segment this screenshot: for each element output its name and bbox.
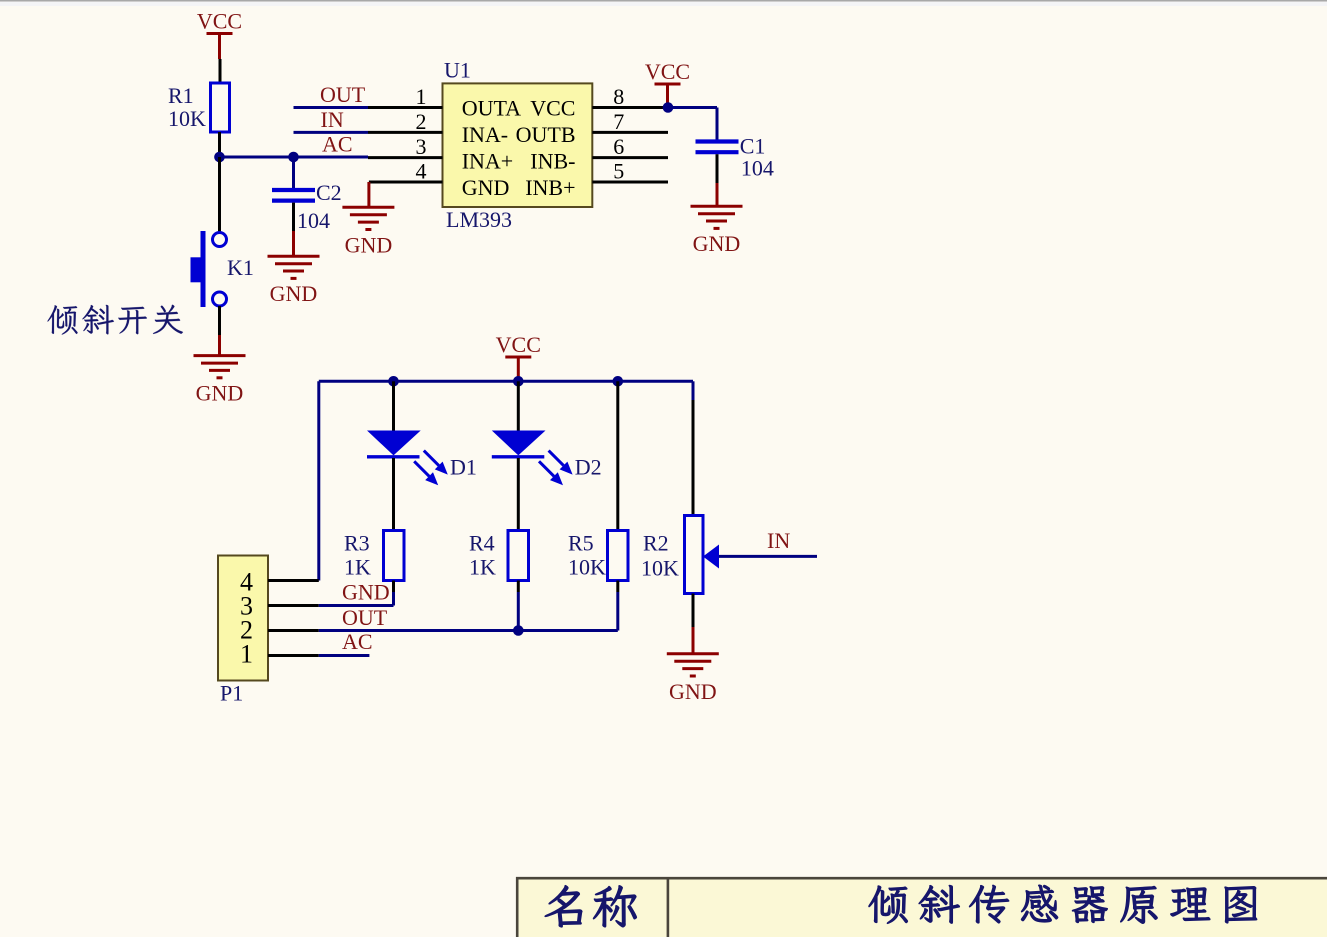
- wire U1 pin4 to ground: [367, 182, 370, 207]
- resistor R4: [469, 531, 529, 581]
- svg-text:LM393: LM393: [446, 207, 512, 232]
- wire R4 to OUT net: [517, 581, 520, 631]
- wire R3 to P1 pin3 net: [392, 581, 395, 606]
- ground below K1: [194, 356, 246, 406]
- svg-text:1K: 1K: [344, 555, 371, 580]
- wire VCC to R1: [219, 59, 222, 83]
- wire net OUT: [294, 82, 369, 108]
- svg-text:OUT: OUT: [320, 82, 366, 107]
- svg-text:7: 7: [613, 109, 624, 134]
- wire R5 to OUT net: [616, 581, 619, 631]
- power VCC (bus): [496, 332, 541, 381]
- svg-text:AC: AC: [342, 629, 373, 654]
- svg-text:GND: GND: [669, 679, 717, 704]
- svg-text:OUT: OUT: [342, 605, 388, 630]
- svg-text:R2: R2: [643, 531, 669, 556]
- svg-text:INB+: INB+: [525, 175, 575, 200]
- P1 pin 2 net OUT: [268, 605, 618, 631]
- svg-text:INB-: INB-: [530, 148, 575, 173]
- svg-text:GND: GND: [270, 281, 318, 306]
- wire D1 to R3: [392, 458, 395, 531]
- svg-text:AC: AC: [322, 132, 353, 157]
- svg-text:K1: K1: [227, 255, 254, 280]
- svg-text:INA-: INA-: [462, 122, 508, 147]
- svg-text:C1: C1: [740, 133, 766, 158]
- title text 倾斜传感器原理图: [869, 885, 1257, 924]
- svg-text:3: 3: [416, 134, 427, 159]
- wire C2 to ground: [292, 203, 295, 257]
- node C junction (pin8/VCC/C1): [663, 102, 674, 113]
- LED D2: [492, 431, 602, 486]
- power VCC (R1): [197, 9, 242, 60]
- svg-text:5: 5: [613, 159, 624, 184]
- svg-text:8: 8: [613, 84, 624, 109]
- svg-text:GND: GND: [462, 175, 510, 200]
- U1 pin 2: [368, 109, 443, 134]
- svg-text:GND: GND: [693, 231, 741, 256]
- wire K1 to ground: [218, 306, 221, 356]
- svg-text:10K: 10K: [641, 556, 679, 581]
- U1 pin 6: [592, 134, 668, 159]
- potentiometer R2: [641, 516, 719, 594]
- op-amp U1 LM393 body: [443, 58, 593, 233]
- svg-text:GND: GND: [345, 232, 393, 257]
- switch K1: [191, 231, 254, 307]
- LED D1: [367, 431, 477, 486]
- svg-text:GND: GND: [342, 579, 390, 604]
- svg-text:C2: C2: [316, 180, 342, 205]
- ground below U1 pin4: [342, 207, 394, 257]
- svg-text:10K: 10K: [568, 555, 606, 580]
- svg-text:104: 104: [741, 156, 774, 181]
- wire bus to R2: [692, 381, 695, 515]
- svg-text:R3: R3: [344, 531, 370, 556]
- svg-text:104: 104: [297, 208, 330, 233]
- ground below C2: [268, 256, 320, 306]
- svg-text:U1: U1: [444, 58, 471, 83]
- svg-text:R4: R4: [469, 531, 495, 556]
- node G junction (R4/OUT): [513, 625, 524, 636]
- label 倾斜开关: [48, 305, 183, 335]
- svg-text:VCC: VCC: [530, 95, 575, 120]
- wire bus to D1: [392, 381, 395, 430]
- P1 pin 1 net AC: [268, 629, 373, 656]
- U1 pin 8: [592, 84, 668, 109]
- wire C1 to ground: [716, 154, 719, 206]
- wire bus down to P1 pin4: [317, 381, 320, 580]
- node E junction (VCC/D2 branch): [513, 376, 524, 387]
- svg-text:P1: P1: [220, 680, 243, 705]
- wire R2 wiper IN net: [719, 528, 817, 556]
- wire node A to K1: [218, 157, 221, 233]
- wire bus to R5: [616, 381, 619, 530]
- wire net IN: [294, 107, 369, 132]
- wire VCC bus: [319, 380, 693, 383]
- wire node B to C2: [292, 157, 295, 188]
- power VCC (U1 pin 8): [645, 59, 690, 108]
- svg-text:IN: IN: [321, 107, 344, 132]
- U1 pin 1: [368, 84, 443, 109]
- U1 pin 3: [368, 134, 443, 159]
- wire D2 to R4: [517, 458, 520, 531]
- node B junction: [288, 152, 299, 163]
- title block: [516, 877, 1327, 937]
- svg-text:1: 1: [240, 640, 253, 669]
- P1 pin 4 stub: [268, 579, 319, 582]
- resistor R3: [344, 531, 404, 581]
- svg-text:VCC: VCC: [197, 9, 242, 34]
- svg-text:6: 6: [613, 134, 624, 159]
- resistor R5: [568, 531, 628, 581]
- resistor R1: [168, 83, 230, 132]
- svg-text:D2: D2: [575, 455, 602, 480]
- U1 pin 4: [369, 159, 443, 184]
- U1 pin 5: [592, 159, 668, 184]
- wire R1 to node A: [218, 132, 221, 157]
- svg-text:OUTA: OUTA: [462, 95, 521, 120]
- wire node C to C1: [668, 108, 717, 141]
- svg-text:D1: D1: [450, 455, 477, 480]
- ground below R2: [667, 654, 719, 704]
- wire net AC (node B to U1): [294, 132, 369, 158]
- connector P1: [218, 556, 268, 706]
- capacitor C2: [272, 180, 342, 233]
- svg-text:VCC: VCC: [645, 59, 690, 84]
- svg-text:IN: IN: [767, 528, 790, 553]
- svg-text:1K: 1K: [469, 555, 496, 580]
- ground below C1: [691, 206, 743, 256]
- wire node A to node B: [220, 156, 294, 159]
- P1 pin 3 net GND: [268, 579, 394, 605]
- svg-text:4: 4: [416, 159, 427, 184]
- svg-text:1: 1: [416, 84, 427, 109]
- node F junction (R5 branch): [613, 376, 624, 387]
- wire R2 to ground: [692, 594, 695, 654]
- title field 名称: [545, 885, 637, 927]
- svg-text:R1: R1: [168, 83, 194, 108]
- node A junction: [214, 152, 225, 163]
- capacitor C1: [696, 133, 774, 180]
- svg-text:2: 2: [416, 109, 427, 134]
- svg-text:10K: 10K: [168, 106, 206, 131]
- U1 pin 7: [592, 109, 668, 134]
- node D junction (D1 branch): [388, 376, 399, 387]
- svg-text:INA+: INA+: [462, 148, 514, 173]
- wire bus to D2: [517, 381, 520, 430]
- svg-text:R5: R5: [568, 531, 594, 556]
- U1 pin names: [462, 95, 576, 200]
- svg-text:OUTB: OUTB: [516, 122, 576, 147]
- svg-text:GND: GND: [196, 381, 244, 406]
- svg-text:VCC: VCC: [496, 332, 541, 357]
